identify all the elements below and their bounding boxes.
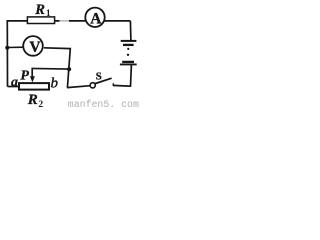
svg-text:1: 1 <box>46 8 51 18</box>
wire slider to junction <box>32 67 70 70</box>
svg-text:P: P <box>20 69 29 84</box>
svg-text:A: A <box>90 10 102 27</box>
wire branch vertical (V output down to bottom wire) <box>44 48 71 88</box>
wire left vertical <box>6 21 8 87</box>
svg-text:R: R <box>34 2 45 18</box>
switch contact nub <box>112 83 114 86</box>
svg-text:a: a <box>11 75 18 90</box>
wire faint segment (scan fade) <box>60 20 70 22</box>
slider P arrowhead <box>30 76 35 82</box>
wire bottom left (to rheostat terminal a) <box>8 86 20 88</box>
voltmeter V <box>23 36 43 56</box>
svg-text:S: S <box>96 70 102 82</box>
battery cell plate long top <box>121 40 137 42</box>
battery cell plate long bottom <box>120 63 137 65</box>
wire top (left corner to right corner) <box>7 20 130 22</box>
battery cell plate short thick top <box>123 44 134 46</box>
svg-text:b: b <box>51 75 59 91</box>
svg-text:R: R <box>27 92 38 108</box>
resistor R1 <box>27 17 54 24</box>
wire bottom middle segment (pivot to corner) <box>67 86 90 88</box>
battery ellipsis dot 2 <box>127 54 129 56</box>
battery ellipsis dot 1 <box>127 48 129 50</box>
slider P stem <box>31 68 33 77</box>
wire battery stem bottom <box>130 65 133 87</box>
svg-text:manfen5. com: manfen5. com <box>68 99 139 110</box>
node dot on left wire <box>5 46 9 50</box>
svg-text:V: V <box>29 39 41 56</box>
wire right vertical to battery <box>129 21 132 41</box>
switch pivot <box>90 83 95 88</box>
background <box>0 0 139 110</box>
wire bottom right segment <box>113 84 132 87</box>
battery cell plate short thick bottom <box>122 61 134 63</box>
rheostat R2 box <box>19 83 49 90</box>
switch lever S <box>94 78 111 84</box>
ammeter A1 <box>85 8 104 27</box>
svg-text:2: 2 <box>38 100 43 110</box>
node junction dot <box>67 67 71 71</box>
wire to voltmeter <box>7 46 23 48</box>
